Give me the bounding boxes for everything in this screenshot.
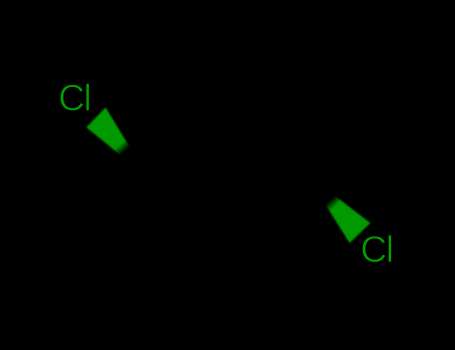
svg-text:Cl: Cl	[58, 77, 90, 118]
svg-text:Cl: Cl	[360, 229, 392, 270]
